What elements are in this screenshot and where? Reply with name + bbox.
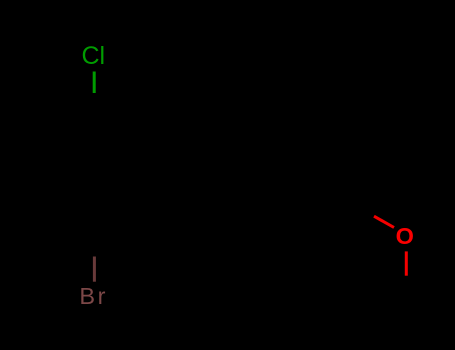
svg-text:Br: Br <box>79 283 108 309</box>
bond C-Cl (green half) <box>93 72 96 94</box>
bond ring-O (red half, diagonal) <box>374 216 394 227</box>
svg-text:O: O <box>396 223 414 249</box>
bond C-Br (maroon half) <box>93 257 96 282</box>
svg-text:Cl: Cl <box>82 42 106 70</box>
bond O-CH3 (red half, vertical) <box>405 251 408 275</box>
